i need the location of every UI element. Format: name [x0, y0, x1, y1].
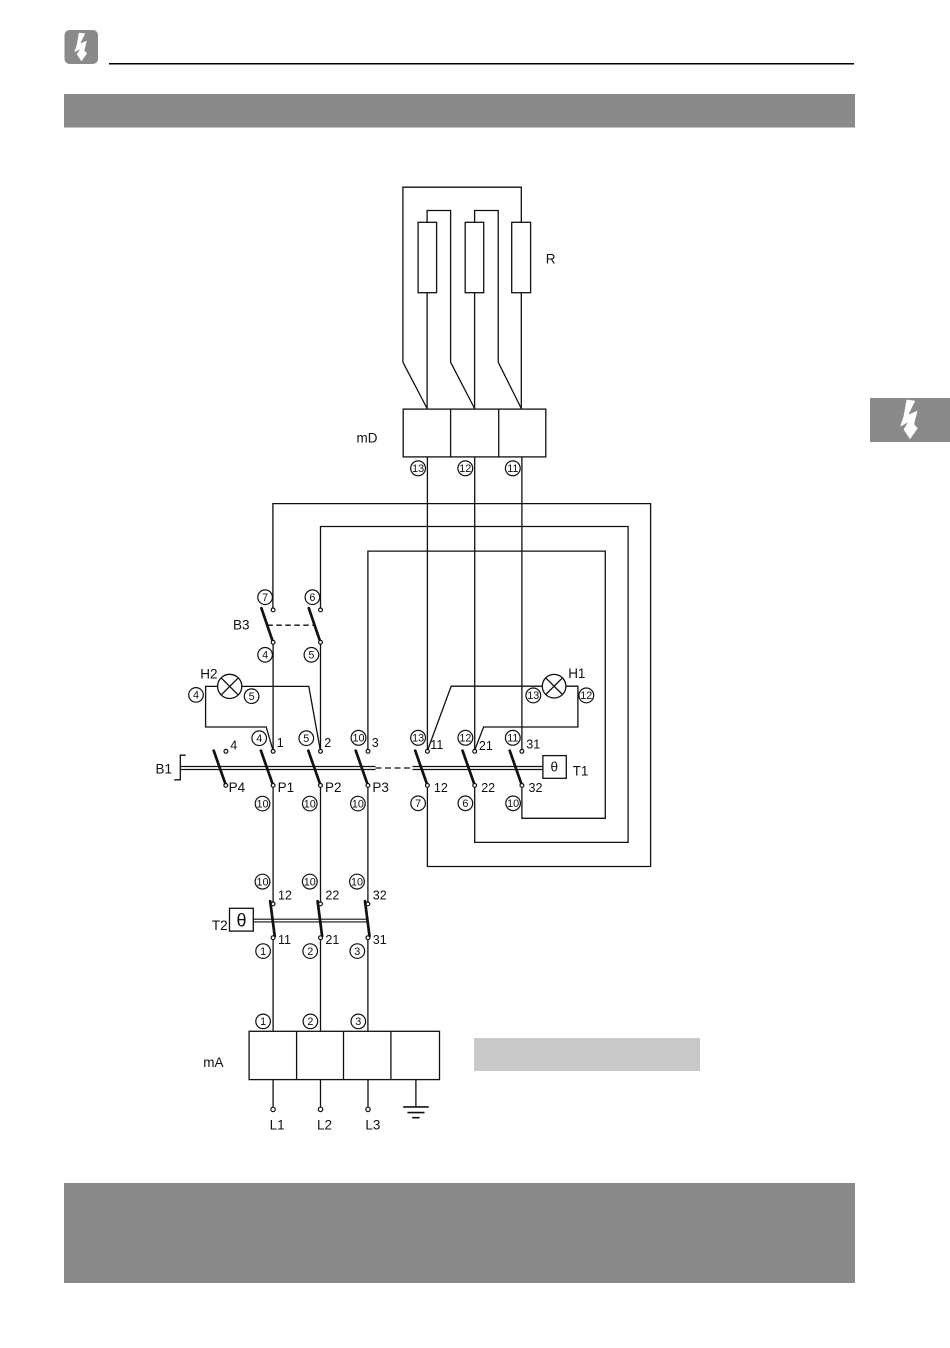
svg-text:10: 10: [256, 798, 268, 810]
svg-text:22: 22: [325, 889, 339, 903]
svg-text:1: 1: [260, 1016, 266, 1028]
svg-text:12: 12: [459, 733, 471, 745]
svg-text:10: 10: [304, 798, 316, 810]
svg-text:10: 10: [256, 876, 268, 888]
svg-text:4: 4: [193, 690, 199, 702]
svg-text:4: 4: [262, 650, 268, 662]
svg-text:1: 1: [260, 946, 266, 958]
svg-text:6: 6: [309, 592, 315, 604]
svg-text:2: 2: [307, 946, 313, 958]
svg-text:3: 3: [354, 946, 360, 958]
svg-text:13: 13: [527, 690, 539, 702]
svg-text:13: 13: [412, 463, 424, 475]
svg-text:10: 10: [352, 733, 364, 745]
svg-text:H2: H2: [200, 667, 217, 682]
svg-text:13: 13: [412, 733, 424, 745]
svg-text:11: 11: [278, 933, 291, 947]
svg-text:5: 5: [308, 650, 314, 662]
svg-text:22: 22: [481, 781, 495, 795]
svg-text:5: 5: [249, 691, 255, 703]
svg-text:32: 32: [373, 889, 387, 903]
svg-text:31: 31: [526, 738, 540, 752]
svg-text:P4: P4: [229, 780, 246, 795]
svg-text:θ: θ: [550, 760, 558, 775]
svg-text:P2: P2: [325, 780, 342, 795]
svg-text:θ: θ: [236, 910, 246, 930]
svg-text:P1: P1: [278, 780, 295, 795]
svg-text:R: R: [546, 252, 556, 267]
svg-text:2: 2: [307, 1016, 313, 1028]
svg-text:10: 10: [507, 798, 519, 810]
svg-text:6: 6: [462, 798, 468, 810]
svg-text:7: 7: [415, 798, 421, 810]
svg-text:10: 10: [304, 876, 316, 888]
svg-text:mA: mA: [203, 1055, 223, 1070]
svg-text:12: 12: [434, 781, 448, 795]
svg-text:12: 12: [459, 463, 471, 475]
svg-text:3: 3: [355, 1016, 361, 1028]
svg-text:L3: L3: [365, 1118, 380, 1133]
svg-text:10: 10: [351, 876, 363, 888]
svg-text:12: 12: [278, 889, 292, 903]
svg-text:1: 1: [277, 736, 284, 750]
svg-text:11: 11: [430, 738, 443, 752]
svg-text:T1: T1: [573, 764, 589, 779]
svg-text:10: 10: [352, 798, 364, 810]
svg-text:21: 21: [325, 933, 339, 947]
svg-text:L1: L1: [270, 1118, 285, 1133]
svg-text:21: 21: [479, 739, 493, 753]
svg-text:L2: L2: [317, 1118, 332, 1133]
svg-text:mD: mD: [357, 431, 378, 446]
svg-text:31: 31: [373, 933, 387, 947]
svg-text:12: 12: [580, 690, 592, 702]
svg-text:7: 7: [262, 592, 268, 604]
svg-text:H1: H1: [568, 666, 585, 681]
svg-text:11: 11: [507, 463, 518, 475]
svg-text:2: 2: [324, 736, 331, 750]
svg-text:5: 5: [303, 733, 309, 745]
svg-text:32: 32: [529, 781, 543, 795]
svg-text:3: 3: [372, 736, 379, 750]
svg-text:B3: B3: [233, 618, 250, 633]
svg-text:P3: P3: [372, 780, 389, 795]
svg-text:B1: B1: [155, 761, 172, 776]
svg-text:T2: T2: [212, 918, 228, 933]
svg-text:11: 11: [507, 733, 518, 745]
svg-text:4: 4: [230, 738, 237, 752]
svg-text:4: 4: [256, 733, 262, 745]
